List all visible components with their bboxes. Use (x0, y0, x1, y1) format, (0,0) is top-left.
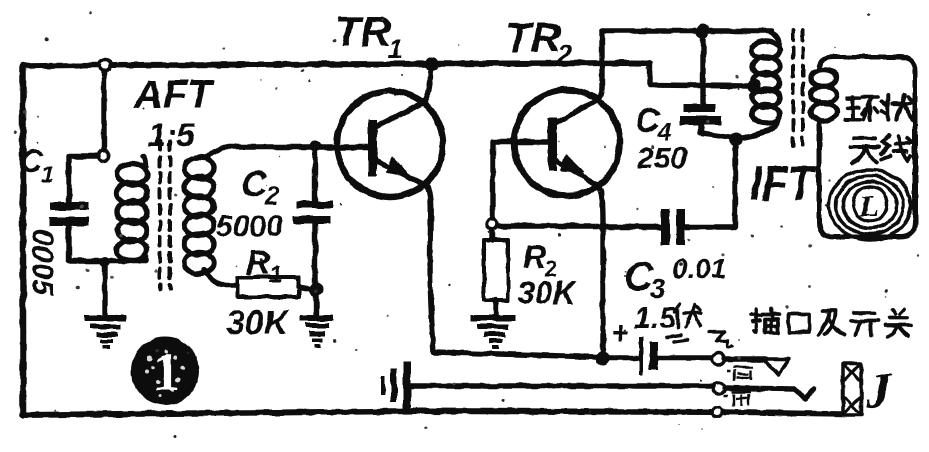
svg-text:2: 2 (556, 40, 572, 70)
svg-text:+: + (611, 315, 630, 351)
svg-text:3: 3 (650, 273, 666, 304)
svg-text:1: 1 (388, 34, 403, 64)
svg-text:2: 2 (264, 182, 279, 210)
svg-text:J: J (865, 362, 893, 418)
svg-text:TR: TR (335, 8, 392, 55)
svg-text:0005: 0005 (26, 229, 59, 297)
svg-text:L: L (859, 190, 878, 223)
svg-text:1: 1 (269, 261, 282, 288)
svg-text:R: R (246, 244, 271, 282)
svg-text:30K: 30K (226, 304, 291, 342)
svg-text:1.5: 1.5 (634, 302, 677, 335)
svg-text:IFT: IFT (750, 158, 817, 211)
svg-text:TR: TR (505, 14, 562, 61)
svg-text:C: C (635, 102, 660, 140)
svg-text:30K: 30K (517, 275, 579, 311)
svg-text:AFT: AFT (133, 73, 215, 117)
svg-text:R: R (523, 239, 546, 275)
svg-text:0.01: 0.01 (672, 253, 727, 284)
svg-text:1:5: 1:5 (148, 117, 195, 153)
svg-text:250: 250 (636, 142, 687, 175)
svg-text:1: 1 (41, 161, 54, 187)
svg-text:5000: 5000 (216, 210, 283, 243)
svg-text:C: C (241, 163, 268, 204)
